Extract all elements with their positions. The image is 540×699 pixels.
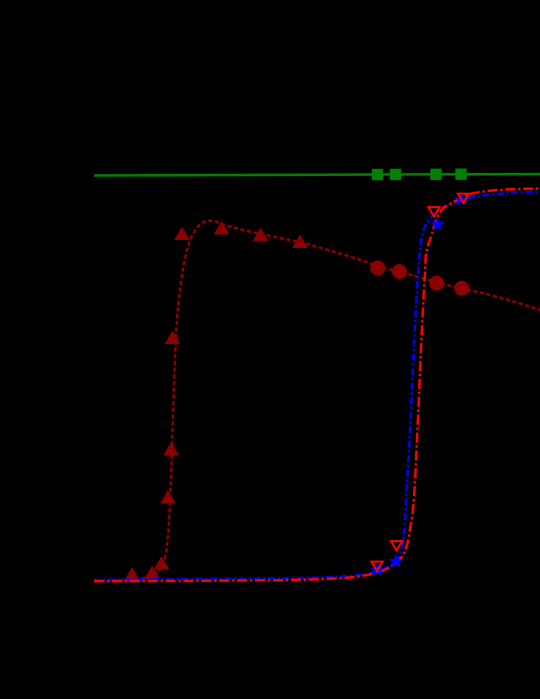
red open triangle-down markers — [371, 194, 469, 571]
dark red triangle markers — [124, 221, 308, 580]
blue dash-dot curve — [94, 192, 540, 580]
dark red dashed curve — [94, 221, 540, 581]
dark red circle markers — [370, 261, 469, 296]
green square markers — [372, 169, 467, 181]
red dash-dot curve — [94, 189, 540, 582]
blue star markers — [370, 192, 469, 576]
green series line — [94, 174, 540, 175]
